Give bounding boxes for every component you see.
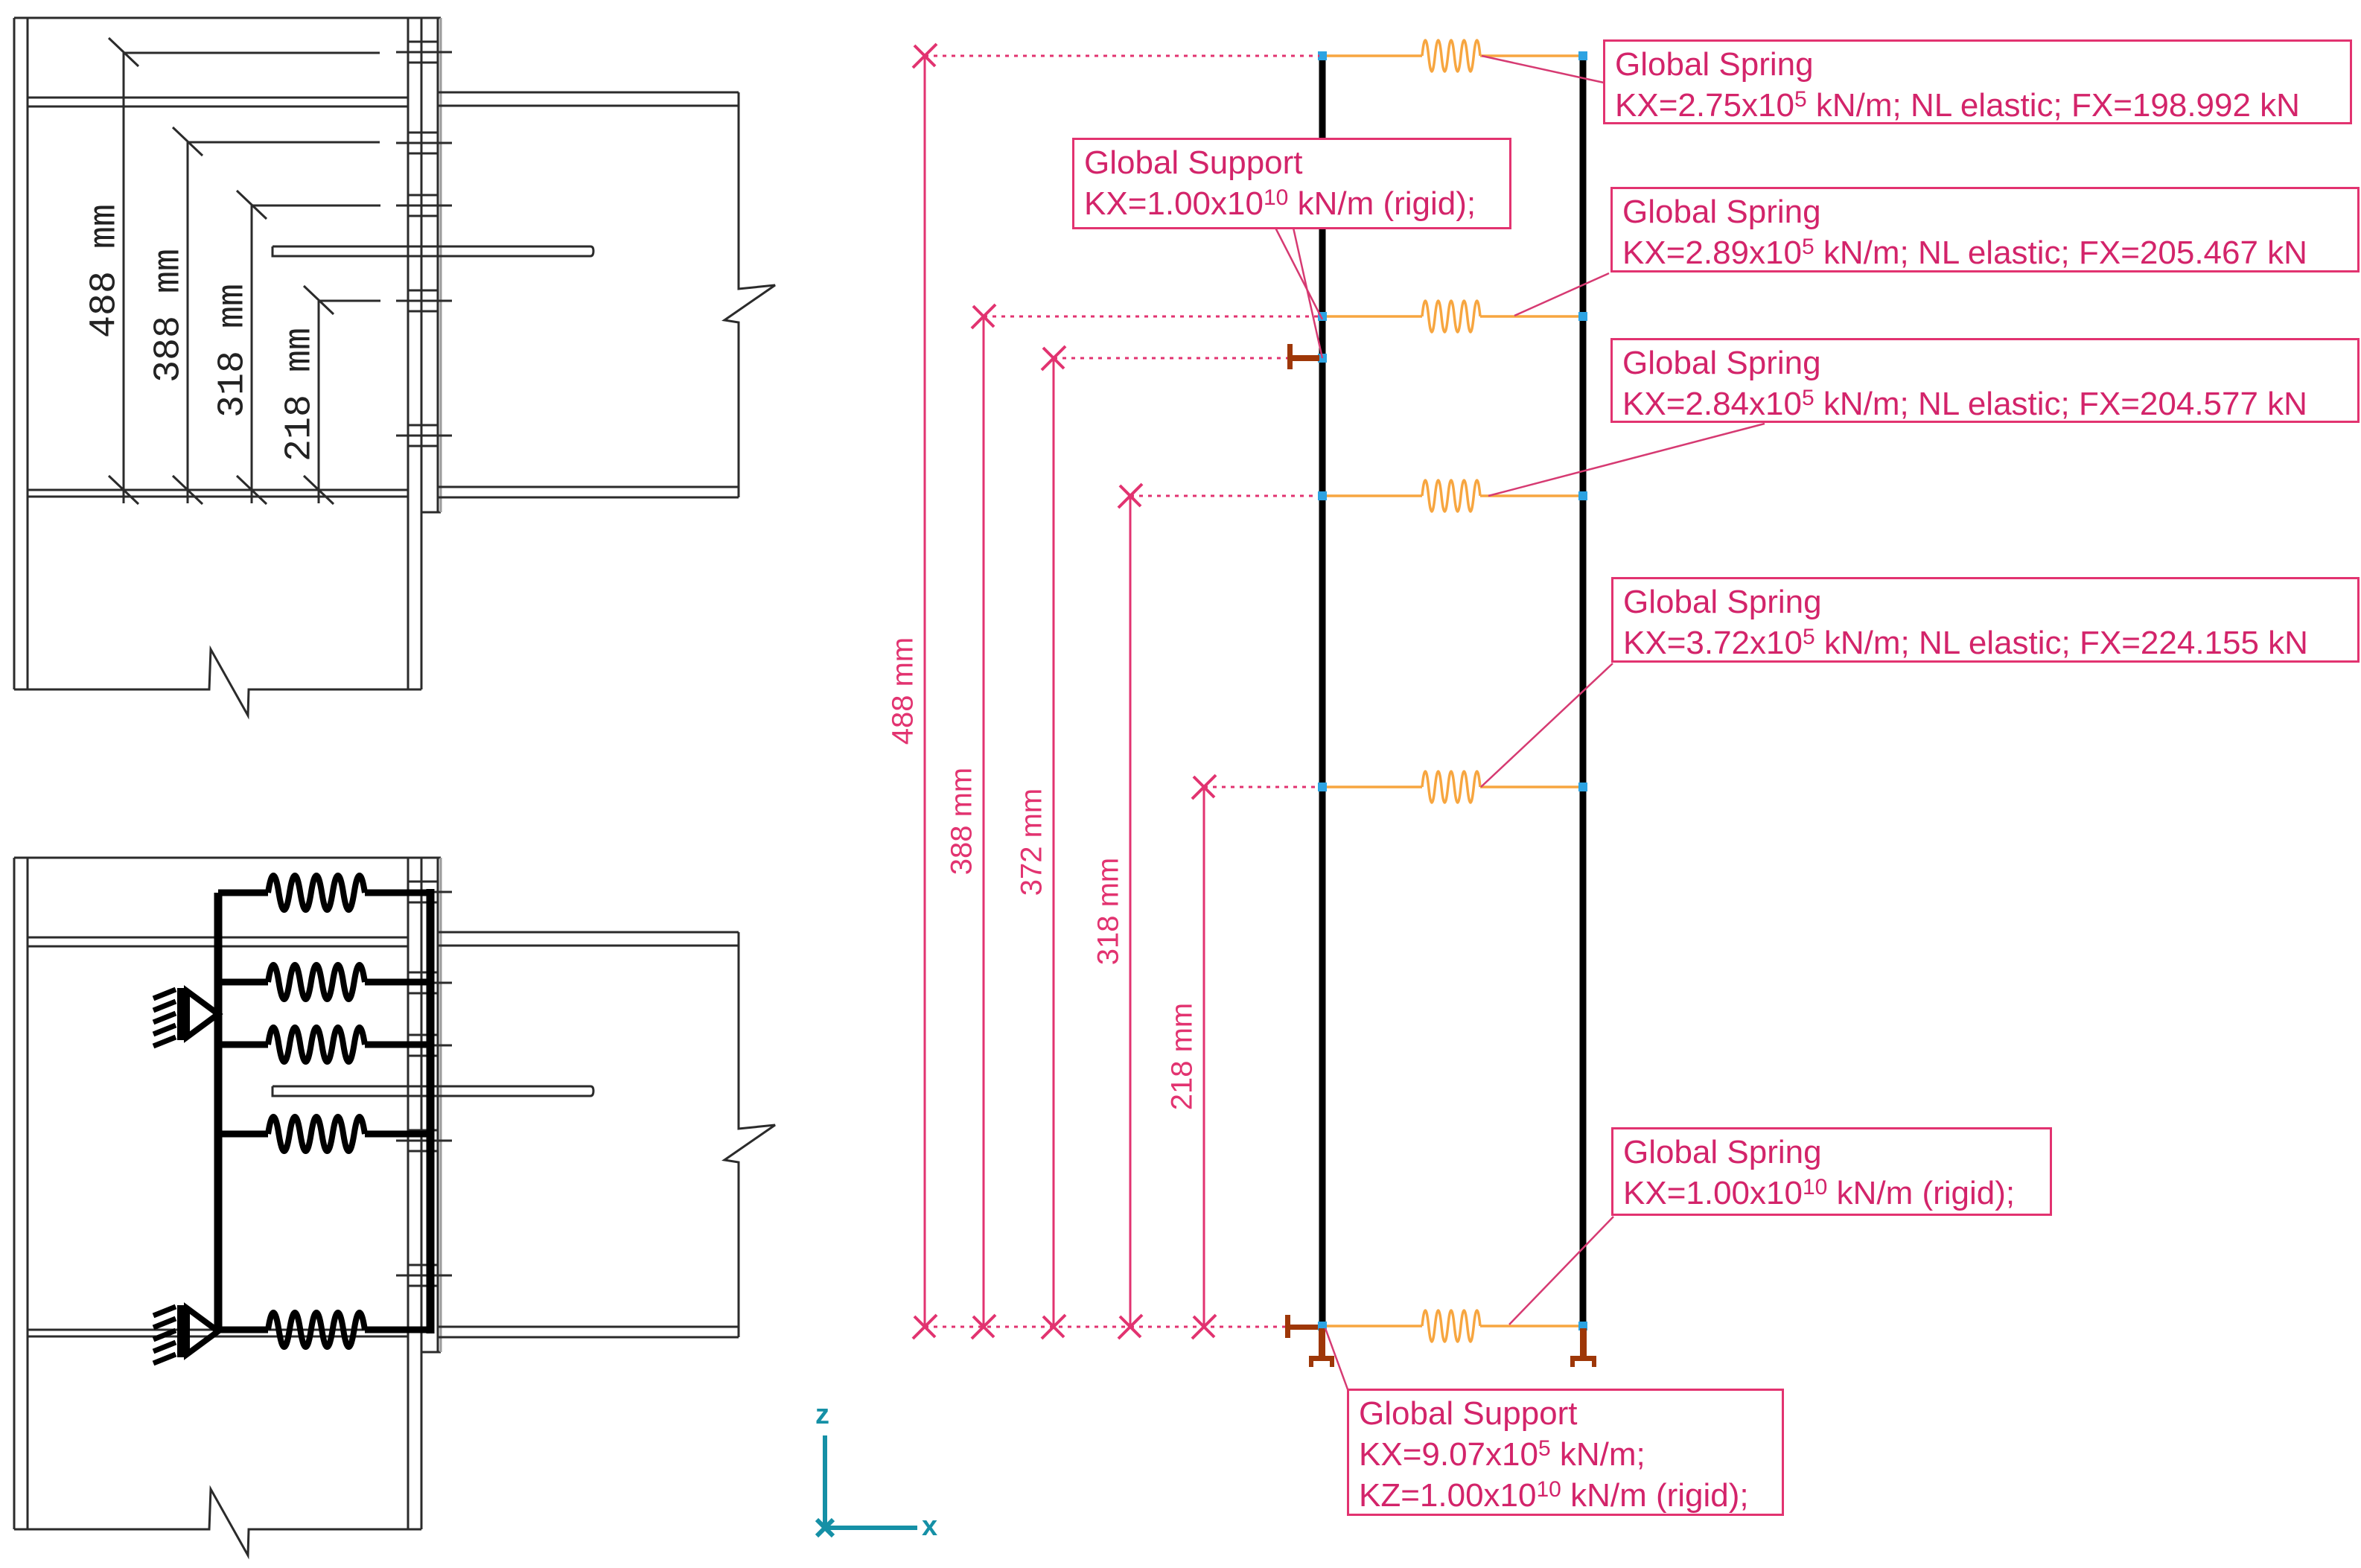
support bottom-right KZ	[1580, 1328, 1587, 1357]
spring row 5 (0)	[1325, 1325, 1580, 1328]
tick 488 top	[913, 44, 937, 68]
annotation box: Global Spring 388	[1610, 187, 2360, 273]
leader box4 to spring3	[1488, 424, 1765, 496]
support bottom: triangle	[187, 1308, 218, 1354]
support bottom: hatch	[153, 1307, 176, 1363]
bolt row 2	[396, 972, 452, 993]
dotted extension 372	[1054, 357, 1287, 360]
node row4 right	[1578, 783, 1587, 791]
label 488 mm (pink)	[887, 637, 920, 745]
bolt row 3	[396, 1035, 452, 1056]
dimension ticks top corners	[109, 38, 334, 314]
bolt row 3	[396, 195, 452, 216]
beam web cut with break	[724, 946, 775, 1327]
spring row 1 (488)	[1325, 54, 1580, 57]
bolt row 4	[396, 1130, 452, 1151]
dim line 388	[983, 316, 985, 1327]
end plate shadow edge	[440, 18, 442, 512]
dotted extension 218	[1204, 786, 1318, 788]
column left flange	[14, 858, 28, 1529]
node support 372	[1318, 354, 1327, 363]
node row5 left	[1318, 1322, 1327, 1330]
bottom continuity stiffener	[28, 490, 408, 497]
support mid: triangle	[187, 991, 218, 1037]
dim line 488	[924, 56, 926, 1327]
label 318 mm (pink)	[1092, 858, 1126, 966]
support bottom-left KZ	[1319, 1328, 1325, 1357]
column top edge	[14, 17, 441, 19]
label 488 mm (CAD)	[84, 204, 127, 338]
node row2 right	[1578, 312, 1587, 321]
dotted extension 388	[984, 316, 1318, 318]
top continuity stiffener	[28, 937, 408, 946]
column right flange	[408, 858, 421, 1529]
node row4 left	[1318, 783, 1327, 791]
dotted baseline	[925, 1326, 1285, 1328]
annotation box: Global Support rigid 372	[1072, 138, 1511, 229]
tick 218 top	[1192, 775, 1216, 799]
annotation box: Global Support bottom	[1347, 1389, 1784, 1516]
beam bottom flange	[438, 487, 739, 497]
dim line 372	[1053, 358, 1055, 1327]
annotation box: Global Spring rigid bottom	[1611, 1127, 2052, 1216]
support mid: hatch	[153, 989, 176, 1046]
dimension line 218	[319, 301, 380, 503]
node row1 right	[1578, 51, 1587, 60]
annotation box: Global Spring 488	[1603, 39, 2352, 124]
fin plate mid-height	[273, 246, 593, 256]
beam bottom flange	[438, 1327, 739, 1337]
dotted extension 488	[925, 55, 1319, 57]
bottom continuity stiffener	[28, 1330, 408, 1336]
node row5 right	[1578, 1322, 1587, 1330]
leader box6 to spring5	[1509, 1217, 1613, 1325]
column right flange	[408, 18, 421, 689]
leader box2 to support 372	[1293, 228, 1322, 358]
top continuity stiffener	[28, 98, 408, 106]
fin plate mid-height	[273, 1086, 593, 1096]
spring row 2 (388)	[1325, 315, 1580, 318]
tick 388 top	[972, 305, 995, 328]
node row2 left	[1318, 312, 1327, 321]
label 218 mm (CAD)	[279, 328, 322, 462]
axis label x	[922, 1511, 937, 1543]
dim line 318	[1129, 496, 1132, 1327]
label 318 mm (CAD)	[212, 284, 255, 418]
tick 318 top	[1118, 484, 1142, 508]
support mid: back bar	[177, 988, 186, 1040]
dim line 218	[1203, 787, 1205, 1327]
spring row 4 (218)	[1325, 785, 1580, 788]
bolt row 5	[396, 1265, 452, 1286]
spring row 2	[218, 979, 430, 986]
beam web cut with break	[724, 106, 775, 487]
annotation box: Global Spring 318	[1610, 338, 2360, 423]
support 372 rigid	[1287, 344, 1293, 369]
leader box5 to spring4	[1481, 663, 1613, 787]
spring row 1	[218, 890, 430, 896]
baseline ticks	[913, 1315, 937, 1339]
leader box3 to spring2	[1514, 273, 1609, 316]
end plate	[421, 858, 441, 1352]
column bottom edge with break	[14, 1489, 421, 1555]
label 388 mm (CAD)	[148, 249, 191, 383]
spring row 5 (bottom flange)	[218, 1327, 430, 1333]
end plate	[421, 18, 441, 512]
node row3 right	[1578, 491, 1587, 500]
bolt row 5	[396, 425, 452, 446]
column top edge	[14, 857, 441, 859]
label 218 mm (pink)	[1166, 1003, 1199, 1111]
spring row 3 (318)	[1325, 494, 1580, 497]
model bar left	[214, 893, 223, 1330]
member bar right	[1580, 57, 1587, 1327]
support bottom-left KX	[1285, 1315, 1290, 1338]
node row3 left	[1318, 491, 1327, 500]
tick 372 top	[1042, 346, 1065, 370]
bolt row 1	[396, 882, 452, 902]
spring row 3	[218, 1042, 430, 1048]
dimension line 488	[124, 53, 380, 503]
beam top flange	[438, 932, 739, 946]
bolt row 1	[396, 42, 452, 63]
label 372 mm (pink)	[1016, 788, 1049, 896]
spring row 4	[218, 1131, 430, 1138]
leader box7 to support	[1325, 1328, 1348, 1389]
beam top flange	[438, 92, 739, 106]
column bottom edge with break	[14, 649, 421, 716]
annotation box: Global Spring 218	[1611, 577, 2360, 663]
bolt row 2	[396, 133, 452, 153]
dimension line 318	[252, 205, 380, 503]
member bar left	[1319, 57, 1326, 1327]
dotted extension 318	[1130, 495, 1318, 497]
bolt row 4	[396, 290, 452, 311]
support bottom: back bar	[177, 1305, 186, 1357]
coordinate axis	[817, 1435, 917, 1536]
leader box2 to node row2	[1275, 228, 1322, 319]
dimension ticks baseline	[109, 476, 334, 504]
dimension line 388	[188, 142, 380, 503]
label 388 mm (pink)	[946, 768, 979, 876]
node row1 left	[1318, 51, 1327, 60]
model bar at end plate	[427, 889, 435, 1333]
end plate shadow edge	[440, 858, 442, 1352]
column left flange	[14, 18, 28, 689]
axis label z	[815, 1399, 829, 1431]
leader box1 to spring1	[1482, 56, 1604, 83]
